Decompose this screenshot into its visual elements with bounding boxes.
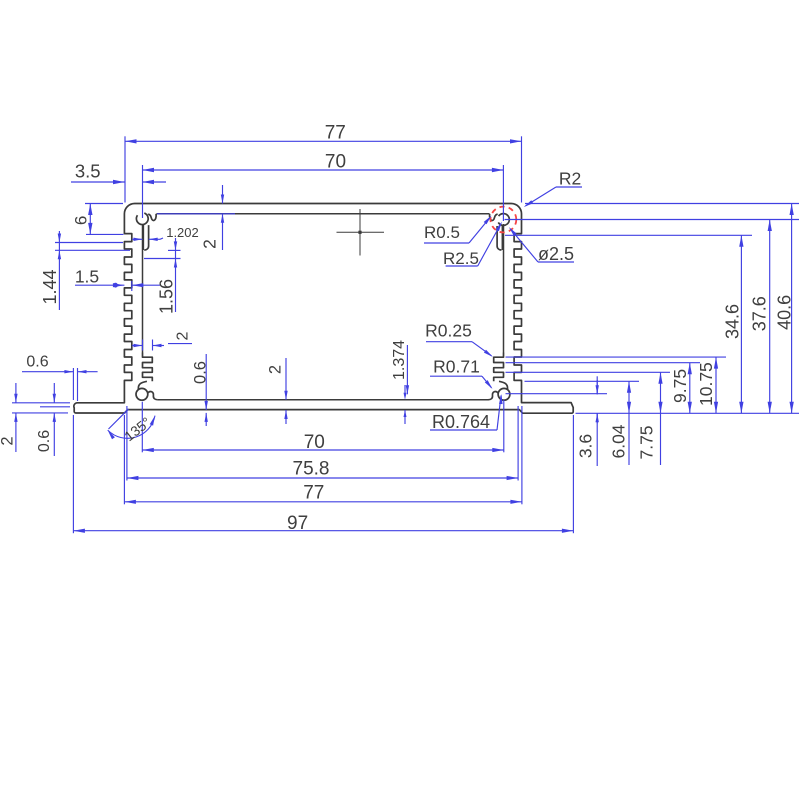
- leader R0.25 comb tooth radius: [425, 321, 493, 357]
- dimension 37.6 hole center height: [750, 220, 772, 414]
- svg-text:10.75: 10.75: [696, 362, 716, 406]
- svg-text:R2.5: R2.5: [443, 249, 479, 268]
- dimension 70 bottom hole spacing: [142, 400, 504, 453]
- profile right inner wall: [503, 224, 505, 353]
- leader diameter 2.5 screw hole: [509, 227, 574, 264]
- dimension 6.04 fin bottom height: [609, 381, 632, 465]
- angular dimension 135 degrees V-groove: [108, 409, 155, 444]
- svg-text:9.75: 9.75: [670, 369, 690, 403]
- dimension 70 top hole spacing: [143, 152, 504, 222]
- right inner PCB-rail comb teeth: [494, 353, 504, 382]
- dimension 0.6 flange tip step width: [22, 353, 98, 401]
- svg-text:1.374: 1.374: [391, 340, 408, 380]
- svg-text:R0.5: R0.5: [424, 223, 460, 242]
- extension line fin bottom for 6.04: [525, 380, 640, 382]
- leader R2.5 boss radius: [443, 222, 502, 269]
- svg-text:R2: R2: [559, 169, 581, 189]
- extrusion profile outer outline with heatsink fins and mounting flanges: [74, 204, 573, 414]
- top-right screw boss with open hole: [490, 214, 510, 250]
- svg-text:6.04: 6.04: [609, 424, 629, 458]
- centroid mark crosshair: [337, 209, 385, 256]
- dimension 1.56 boss stem foot: [144, 238, 181, 314]
- leader R0.5 boss hook radius: [424, 216, 492, 244]
- svg-text:R0.25: R0.25: [425, 321, 472, 341]
- bottom-left slot boss: [136, 381, 157, 400]
- dimension 77 bottom overall width: [124, 406, 522, 504]
- svg-text:77: 77: [325, 122, 346, 143]
- dimension 10.75 comb top height: [696, 357, 718, 413]
- dimension 6 left top to boss bottom: [71, 204, 123, 235]
- dimension 2 top wall thickness: [157, 185, 235, 250]
- profile left inner wall: [142, 224, 144, 353]
- svg-text:2: 2: [174, 331, 191, 340]
- svg-text:34.6: 34.6: [723, 304, 743, 339]
- svg-text:1.56: 1.56: [157, 279, 177, 314]
- svg-text:1.5: 1.5: [75, 266, 99, 286]
- leader R2 top-right corner radius: [524, 169, 582, 208]
- svg-text:0.6: 0.6: [36, 430, 53, 452]
- svg-text:2: 2: [200, 239, 220, 249]
- svg-text:6: 6: [71, 216, 90, 225]
- svg-text:ø2.5: ø2.5: [538, 244, 574, 264]
- profile bottom plate top surface: [158, 399, 489, 401]
- svg-text:135°: 135°: [121, 414, 154, 444]
- dimension 40.6 overall height: [775, 204, 795, 414]
- dimension 2 comb tooth width: [132, 331, 192, 350]
- svg-text:40.6: 40.6: [775, 295, 795, 330]
- svg-text:70: 70: [304, 432, 325, 453]
- top-left screw boss with open hole: [136, 213, 156, 250]
- dimension 3.6 boss center height: [576, 376, 599, 466]
- bottom-right slot boss: [489, 381, 510, 400]
- svg-text:75.8: 75.8: [293, 459, 330, 480]
- red dashed boss circle R2.5 at top-right corner: [491, 207, 517, 233]
- svg-text:R0.71: R0.71: [433, 357, 480, 377]
- svg-text:97: 97: [287, 513, 308, 534]
- dimension 0.6 plate to flange bottom: [192, 354, 210, 426]
- dimension 0.6 flange step height: [36, 383, 70, 456]
- left inner PCB-rail comb teeth: [143, 353, 153, 382]
- extension line top edge for 40.6: [525, 203, 799, 205]
- dimension 1.44 fin tooth height: [40, 231, 130, 310]
- dimension 1.202 boss stem wall: [132, 225, 199, 241]
- svg-text:2: 2: [267, 365, 285, 374]
- dimension 97 flange overall width: [73, 415, 573, 534]
- svg-text:7.75: 7.75: [637, 425, 657, 459]
- dimension 34.6 inner height: [723, 235, 744, 413]
- svg-text:77: 77: [303, 483, 324, 504]
- dimension 75.8 between V-grooves: [127, 406, 518, 481]
- datum extension line at flange bottom: [576, 412, 800, 414]
- dimension 7.75 comb bottom height: [637, 372, 663, 465]
- dimension 77 top overall width: [125, 122, 522, 202]
- svg-text:3.5: 3.5: [75, 161, 101, 182]
- extension line comb top for 10.75: [506, 356, 727, 358]
- extension line hole center for 37.6: [505, 219, 800, 221]
- extension line comb for 9.75: [506, 362, 701, 364]
- leader R0.764 slot boss radius: [430, 394, 503, 432]
- svg-text:1.202: 1.202: [166, 225, 199, 240]
- svg-text:37.6: 37.6: [750, 296, 770, 331]
- dimension 9.75 comb height: [670, 363, 692, 414]
- dimension 3.5 edge to hole: [71, 161, 166, 185]
- svg-text:2: 2: [0, 436, 17, 445]
- svg-text:70: 70: [325, 152, 346, 173]
- extension line boss center for 3.6: [506, 393, 608, 395]
- extension line comb bottom for 7.75: [506, 371, 671, 373]
- dimension 1.5 fin depth: [75, 266, 160, 291]
- svg-text:R0.764: R0.764: [432, 412, 490, 432]
- svg-text:3.6: 3.6: [576, 434, 596, 458]
- svg-text:1.44: 1.44: [40, 269, 60, 304]
- leader R0.71 boss notch radius: [430, 357, 493, 389]
- profile inner top wall line: [157, 213, 490, 215]
- svg-text:0.6: 0.6: [192, 361, 210, 384]
- extension line boss bottom for 34.6: [505, 234, 752, 236]
- dimension 2 flange thickness: [0, 383, 70, 452]
- svg-text:0.6: 0.6: [26, 353, 48, 370]
- dimension 2 bottom plate thickness: [267, 358, 288, 424]
- dimension 1.374 boss to plate: [391, 340, 409, 424]
